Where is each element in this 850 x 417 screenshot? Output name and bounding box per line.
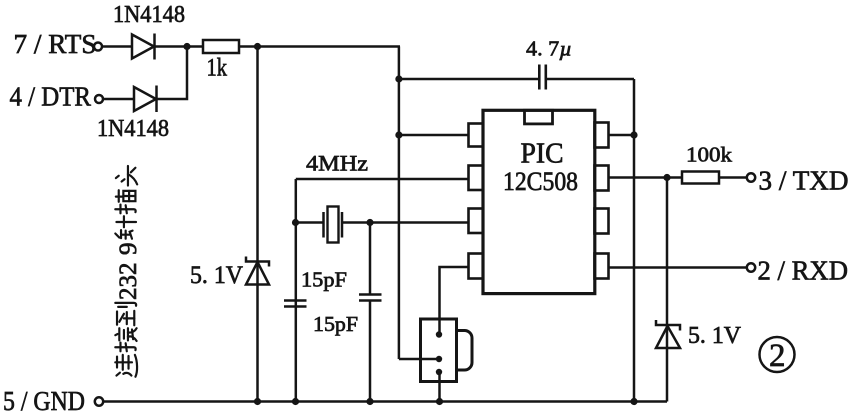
wire DTR to D2 bbox=[103, 98, 134, 101]
svg-text:5. 1V: 5. 1V bbox=[190, 262, 243, 289]
node rail right column bbox=[630, 398, 637, 405]
note text: connect to RS232 9-pin header (rotated) bbox=[115, 166, 142, 377]
resistor R1 bbox=[203, 40, 239, 53]
wire right osc column upper bbox=[369, 223, 372, 295]
node rail C2 bbox=[292, 398, 299, 405]
U1 index notch bbox=[525, 110, 553, 124]
glyph zhen bbox=[115, 216, 136, 238]
wire resonator bottom pin to ground rail bbox=[438, 372, 441, 402]
resonator X1 body bbox=[421, 319, 457, 382]
wire crystal to pin 3 bbox=[342, 221, 468, 224]
capacitor C2 15pF (left) bbox=[284, 301, 307, 307]
node crystal left bbox=[292, 219, 299, 226]
U1 pin 5 (right bottom) bbox=[595, 254, 609, 279]
terminal 7/RTS bbox=[14, 29, 103, 59]
U1 pin 4 (left bottom) bbox=[469, 254, 484, 279]
diode D2 1N4148 bbox=[134, 86, 157, 113]
svg-text:5. 1V: 5. 1V bbox=[688, 323, 742, 349]
wire node A to VDD column bbox=[398, 47, 401, 360]
svg-text:3 / TXD: 3 / TXD bbox=[759, 166, 849, 196]
svg-text:1k: 1k bbox=[207, 55, 228, 82]
glyph lian bbox=[115, 355, 137, 377]
wire capacitor C1 right to right column bbox=[547, 78, 634, 81]
svg-text:15pF: 15pF bbox=[301, 268, 347, 292]
diode D1 1N4148 bbox=[132, 34, 155, 60]
capacitor C1 4.7u bbox=[539, 65, 546, 90]
svg-text:232: 232 bbox=[115, 263, 142, 301]
svg-text:4. 7µ: 4. 7µ bbox=[526, 37, 572, 61]
zener ZD1 bbox=[246, 257, 269, 285]
wire RTS to D1 bbox=[102, 45, 132, 48]
node rail zener ZD1 bbox=[254, 398, 261, 405]
svg-text:PIC: PIC bbox=[521, 139, 564, 170]
wire supply branch down (zener ZD1 branch) bbox=[256, 47, 259, 402]
glyph tou bbox=[116, 166, 137, 186]
wire pin 5 to RXD terminal bbox=[609, 266, 748, 269]
wire R1 to node A bbox=[239, 45, 400, 48]
svg-text:4 / DTR: 4 / DTR bbox=[10, 82, 92, 112]
node TXD branch bbox=[663, 174, 670, 181]
wire right osc column lower bbox=[369, 301, 372, 402]
crystal Y1 bbox=[324, 207, 343, 243]
resonator pin dot top bbox=[436, 331, 442, 337]
node junction of D1/D2 bbox=[183, 43, 190, 50]
node VDD top (to 4.7u) bbox=[395, 75, 402, 82]
svg-text:1N4148: 1N4148 bbox=[97, 116, 169, 142]
wire zener ZD2 branch bbox=[666, 178, 669, 402]
svg-text:1N4148: 1N4148 bbox=[113, 2, 185, 28]
resonator pin dot middle bbox=[436, 356, 442, 362]
resonator pin dot bottom bbox=[436, 369, 442, 375]
glyph jie bbox=[115, 328, 136, 351]
node A (top of zener branch) bbox=[254, 43, 261, 50]
wire R2 to TXD terminal bbox=[719, 176, 747, 179]
wire osc column left bbox=[295, 179, 298, 402]
node pin 8 junction bbox=[630, 131, 637, 138]
U1 pin 7 (right) bbox=[595, 166, 609, 191]
U1 pin 8 (right top) bbox=[595, 123, 609, 148]
node crystal right bbox=[366, 219, 373, 226]
svg-text:100k: 100k bbox=[686, 143, 733, 167]
wire D2 up to D1 junction bbox=[157, 47, 188, 100]
svg-text:15pF: 15pF bbox=[313, 312, 358, 336]
svg-text:2 / RXD: 2 / RXD bbox=[758, 256, 849, 286]
U1 pin 2 (left) bbox=[469, 166, 484, 191]
node rail resonator bbox=[436, 398, 443, 405]
capacitor C3 15pF (right) bbox=[359, 295, 382, 301]
svg-text:7 / RTS: 7 / RTS bbox=[14, 29, 97, 59]
svg-text:5 / GND: 5 / GND bbox=[3, 386, 85, 416]
svg-text:9: 9 bbox=[115, 243, 142, 256]
svg-text:12C508: 12C508 bbox=[503, 167, 578, 196]
node pin1 wire bbox=[395, 131, 402, 138]
glyph dao bbox=[115, 303, 136, 325]
wire pin 4 to resonator top pin bbox=[440, 267, 469, 335]
resistor R2 100k bbox=[682, 172, 719, 184]
svg-text:2: 2 bbox=[769, 338, 786, 374]
U1 pin 3 (left) bbox=[469, 209, 484, 234]
wire 4MHz line to pin 2 bbox=[296, 178, 468, 181]
wire to capacitor C1 left bbox=[399, 78, 538, 81]
wire VDD column to resonator middle pin bbox=[399, 358, 439, 361]
wire node to crystal bbox=[296, 221, 324, 224]
ground rail wire bbox=[103, 400, 667, 403]
wire pin 7 to R2 bbox=[609, 176, 683, 179]
wire right column down bbox=[633, 79, 636, 402]
glyph cha bbox=[115, 190, 135, 213]
resonator X1 side tab bbox=[457, 331, 473, 371]
U1 pin 6 (right) bbox=[595, 209, 609, 234]
node rail C3 bbox=[366, 398, 373, 405]
terminal 2/RXD bbox=[747, 256, 848, 286]
wire pin 8 to right column bbox=[609, 134, 635, 137]
wire D1 to R1 bbox=[155, 45, 204, 48]
wire VDD to pin 1 bbox=[399, 134, 468, 137]
terminal 4/DTR bbox=[10, 82, 104, 112]
terminal 5/GND bbox=[3, 386, 103, 416]
zener ZD2 bbox=[656, 320, 680, 348]
op-amp U1 PIC12C508 body bbox=[483, 110, 595, 293]
figure number circled 2 bbox=[760, 337, 795, 374]
terminal 3/TXD bbox=[747, 166, 849, 196]
U1 pin 1 (left top) bbox=[469, 124, 484, 147]
svg-text:4MHz: 4MHz bbox=[306, 151, 368, 176]
